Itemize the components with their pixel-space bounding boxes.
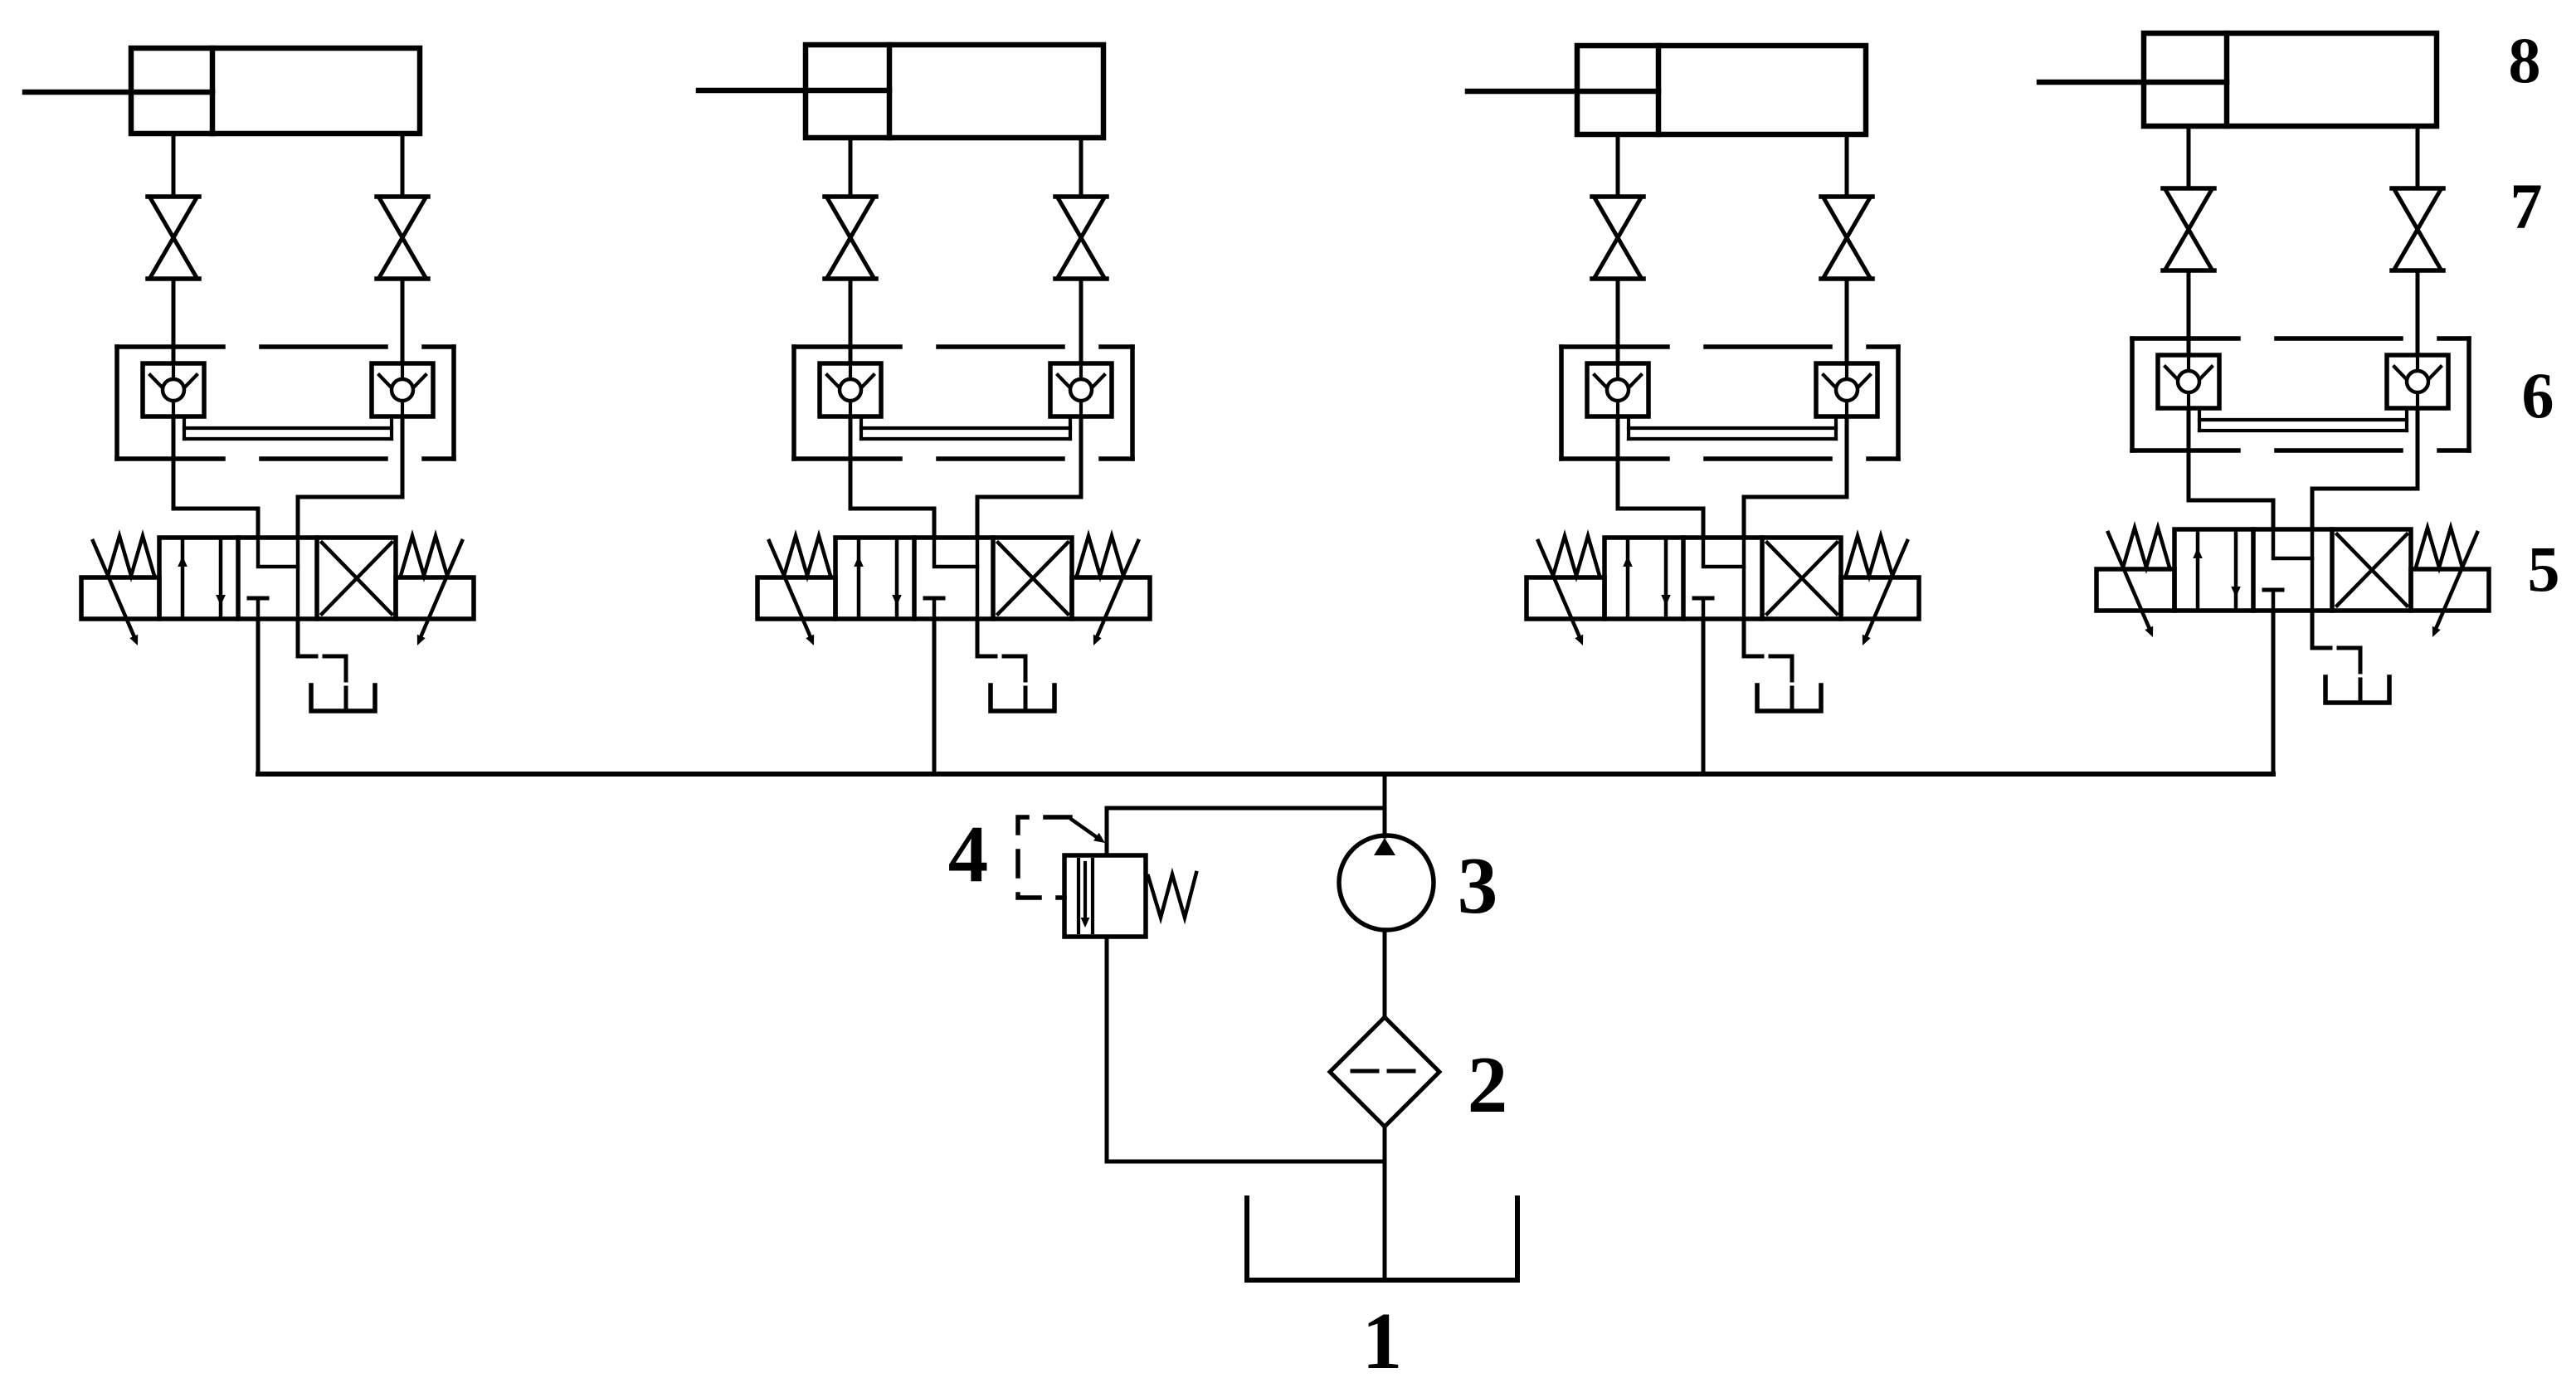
valve 5 left position flow lines branch C <box>1626 538 1630 619</box>
check valve right branch C <box>1816 363 1877 416</box>
wire cylinder port B branch D <box>2416 126 2420 188</box>
check valve left branch A <box>143 363 204 416</box>
wire filter to tank <box>1383 1127 1387 1280</box>
valve 5 right proportional arrow branch A <box>421 541 462 637</box>
valve 5 centre position branch D <box>2311 529 2315 611</box>
cylinder 8 branch A <box>131 48 420 134</box>
wire relief valve top link <box>1107 808 1385 855</box>
valve 5 left proportional arrow branch D <box>2108 533 2150 629</box>
valve 5 left solenoid branch B <box>757 577 835 619</box>
wire P port to pressure bus branch A <box>256 619 261 774</box>
wire B to check block branch D <box>2416 270 2420 355</box>
directional control valve 5 body branch C <box>1605 538 1841 619</box>
wire pump to filter <box>1383 930 1387 1017</box>
svg-text:6: 6 <box>2522 359 2554 431</box>
tank 1 <box>1247 1198 1517 1280</box>
svg-text:5: 5 <box>2528 533 2560 605</box>
valve 5 left position flow lines branch A <box>181 538 185 619</box>
piston rod branch C <box>1468 89 1658 95</box>
valve 5 right solenoid branch C <box>1841 577 1919 619</box>
wire T port drain branch D <box>2312 611 2330 648</box>
shutoff valve 7 right branch B <box>1055 194 1107 199</box>
pressure bus line <box>258 772 2273 777</box>
wire cylinder port A branch B <box>849 138 853 197</box>
check valve right branch B <box>1050 363 1112 416</box>
directional control valve 5 body branch D <box>2174 529 2411 611</box>
wire B to check block branch B <box>1079 279 1083 363</box>
wire T port drain branch C <box>1744 619 1762 656</box>
shutoff valve 7 right branch D <box>2392 186 2443 191</box>
valve 5 left solenoid branch D <box>2096 569 2174 611</box>
wire A check block to valve branch D <box>2189 408 2273 529</box>
valve 5 right spring branch A <box>401 536 447 576</box>
piston rod branch A <box>25 90 212 95</box>
wire T port drain branch A <box>298 619 316 656</box>
wire cylinder port B branch C <box>1845 134 1849 197</box>
valve 5 left proportional arrow branch C <box>1538 541 1580 637</box>
valve 5 left position flow lines branch D <box>2196 529 2200 611</box>
valve 5 right spring branch B <box>1077 536 1123 576</box>
wire A to check block branch A <box>172 279 176 363</box>
shutoff valve 7 right branch C <box>1821 194 1872 199</box>
check valve block 6 dashed enclosure branch B <box>794 344 1132 349</box>
valve 5 left spring branch C <box>1553 536 1600 576</box>
wire B check block to valve branch D <box>2312 408 2418 529</box>
valve 5 crossed position branch C <box>1767 543 1837 614</box>
wire P port to pressure bus branch B <box>933 619 937 774</box>
tank symbol branch D <box>2359 679 2363 703</box>
shutoff valve 7 left branch D <box>2163 186 2214 191</box>
valve 5 centre position branch B <box>976 538 980 619</box>
wire cylinder port A branch C <box>1616 134 1620 197</box>
pilot lines branch A <box>183 416 186 439</box>
valve 5 left position flow lines branch B <box>857 538 861 619</box>
valve 5 right spring branch C <box>1846 536 1892 576</box>
check valve left branch D <box>2158 355 2219 408</box>
wire B check block to valve branch B <box>977 416 1081 538</box>
valve 5 left spring branch D <box>2123 528 2169 567</box>
wire B to check block branch C <box>1845 279 1849 363</box>
valve 5 crossed position branch A <box>322 543 392 614</box>
valve 5 right proportional arrow branch B <box>1097 541 1138 637</box>
check valve right branch A <box>372 363 433 416</box>
valve 5 right proportional arrow branch D <box>2436 533 2477 629</box>
svg-text:3: 3 <box>1458 841 1498 930</box>
wire bus to pump <box>1383 774 1387 836</box>
directional control valve 5 body branch B <box>835 538 1072 619</box>
tank symbol branch C <box>1790 688 1794 711</box>
piston rod branch B <box>699 88 889 94</box>
piston branch B <box>887 45 893 138</box>
valve 5 crossed position branch B <box>998 543 1068 614</box>
check valve block 6 dashed enclosure branch A <box>117 344 454 349</box>
valve 5 left solenoid branch A <box>81 577 159 619</box>
valve 5 left proportional arrow branch A <box>93 541 134 637</box>
filter 2 <box>1330 1017 1439 1127</box>
pilot lines branch C <box>1627 416 1630 439</box>
wire cylinder port A branch A <box>172 134 176 197</box>
check valve block 6 dashed enclosure branch C <box>1561 344 1898 349</box>
shutoff valve 7 left branch A <box>148 194 199 199</box>
wire cylinder port B branch A <box>401 134 405 197</box>
wire A to check block branch D <box>2187 270 2191 355</box>
pilot lines branch B <box>859 416 863 439</box>
wire B check block to valve branch A <box>298 416 402 538</box>
svg-text:4: 4 <box>948 810 989 898</box>
svg-text:7: 7 <box>2510 170 2543 242</box>
pump 3 <box>1339 835 1434 930</box>
relief valve 4 <box>1064 855 1146 937</box>
cylinder 8 branch B <box>806 45 1103 138</box>
wire relief valve bottom <box>1105 937 1109 1161</box>
tank symbol branch B <box>1024 688 1028 711</box>
valve 5 centre position branch A <box>296 538 300 619</box>
check valve left branch C <box>1587 363 1648 416</box>
wire A check block to valve branch C <box>1618 416 1703 538</box>
valve 5 left spring branch A <box>108 536 154 576</box>
wire A check block to valve branch A <box>173 416 258 538</box>
wire A check block to valve branch B <box>850 416 934 538</box>
relief valve 4 pilot arrow <box>1072 820 1100 840</box>
wire B to check block branch A <box>401 279 405 363</box>
wire B check block to valve branch C <box>1744 416 1847 538</box>
wire cylinder port A branch D <box>2187 126 2191 188</box>
wire A to check block branch B <box>849 279 853 363</box>
wire P port to pressure bus branch C <box>1702 619 1706 774</box>
shutoff valve 7 left branch B <box>825 194 876 199</box>
valve 5 right proportional arrow branch C <box>1866 541 1907 637</box>
relief valve 4 spring <box>1148 873 1196 918</box>
valve 5 crossed position branch D <box>2337 534 2407 606</box>
valve 5 centre position branch C <box>1742 538 1746 619</box>
cylinder 8 branch D <box>2144 33 2437 126</box>
svg-text:8: 8 <box>2509 24 2541 96</box>
wire T port drain branch B <box>977 619 996 656</box>
directional control valve 5 body branch A <box>159 538 396 619</box>
svg-text:1: 1 <box>1362 1297 1403 1378</box>
valve 5 right spring branch D <box>2416 528 2462 567</box>
check valve left branch B <box>820 363 881 416</box>
check valve block 6 dashed enclosure branch D <box>2132 336 2469 341</box>
piston branch C <box>1656 46 1662 134</box>
shutoff valve 7 left branch C <box>1592 194 1643 199</box>
cylinder 8 branch C <box>1577 46 1866 134</box>
wire P port to pressure bus branch D <box>2272 611 2276 774</box>
valve 5 left solenoid branch C <box>1527 577 1605 619</box>
svg-text:2: 2 <box>1468 1040 1508 1129</box>
shutoff valve 7 right branch A <box>377 194 428 199</box>
valve 5 left spring branch B <box>784 536 830 576</box>
wire cylinder port B branch B <box>1079 138 1083 197</box>
valve 5 right solenoid branch B <box>1072 577 1150 619</box>
piston rod branch D <box>2039 80 2227 85</box>
wire A to check block branch C <box>1616 279 1620 363</box>
tank symbol branch A <box>344 688 348 711</box>
piston branch D <box>2224 33 2230 126</box>
pilot lines branch D <box>2198 408 2201 431</box>
piston branch A <box>210 48 216 134</box>
valve 5 right solenoid branch D <box>2411 569 2489 611</box>
valve 5 right solenoid branch A <box>396 577 474 619</box>
relief valve 4 pilot dashed box <box>1018 817 1070 898</box>
check valve right branch D <box>2387 355 2448 408</box>
valve 5 left proportional arrow branch B <box>769 541 811 637</box>
